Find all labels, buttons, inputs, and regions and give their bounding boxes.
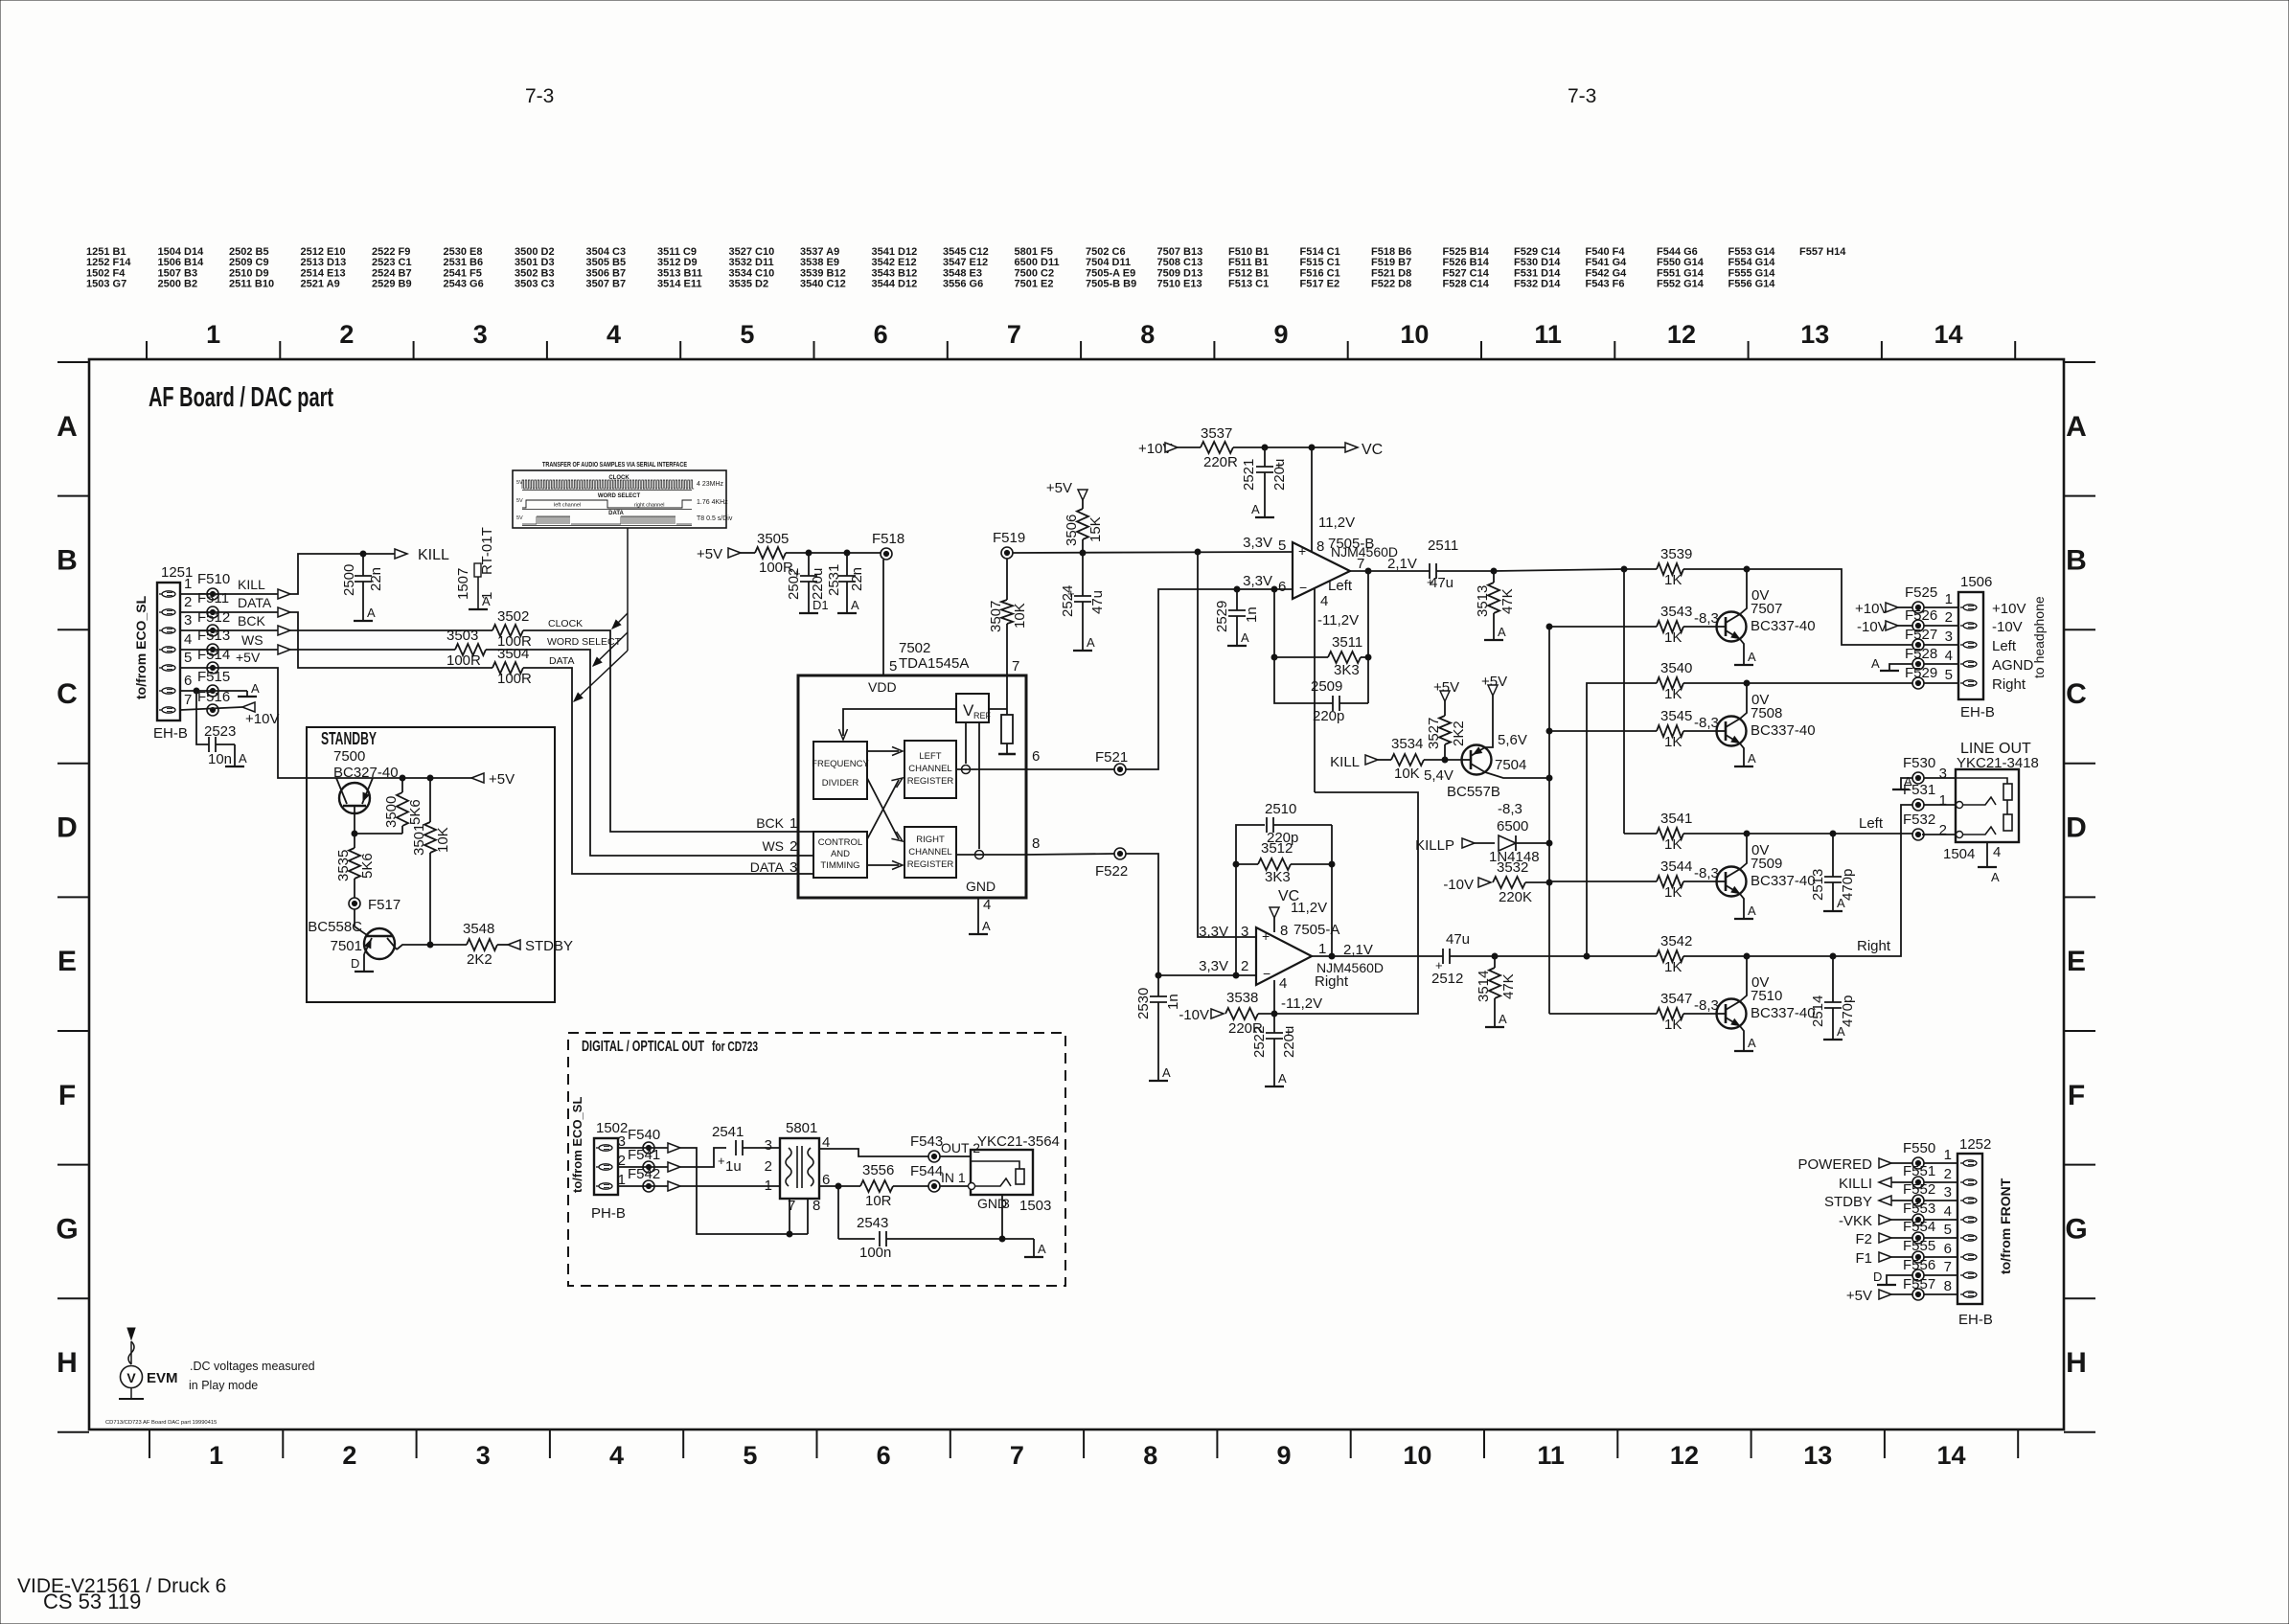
svg-text:0V: 0V: [1751, 974, 1769, 991]
svg-text:15K: 15K: [1087, 516, 1104, 542]
svg-text:3503: 3503: [446, 628, 478, 644]
svg-text:-10V: -10V: [1857, 619, 1888, 635]
resistor 3556 10R: [860, 1180, 893, 1192]
ground A under 2523: [225, 766, 244, 767]
svg-text:1K: 1K: [1664, 629, 1682, 646]
svg-text:1506: 1506: [1960, 574, 1992, 590]
wire F522 dropper to right op-amp minus: [1126, 854, 1256, 975]
svg-text:2543: 2543: [857, 1215, 888, 1231]
wire WS to WORD SELECT line: [290, 649, 455, 651]
svg-text:-8,3: -8,3: [1694, 865, 1719, 881]
pin6 left out: [956, 768, 1026, 770]
svg-text:3K3: 3K3: [1334, 662, 1360, 678]
svg-text:in Play mode: in Play mode: [189, 1379, 258, 1392]
svg-text:D: D: [57, 812, 78, 844]
svg-text:DATA: DATA: [750, 859, 785, 875]
svg-text:3512 D9: 3512 D9: [657, 257, 698, 268]
svg-text:3504: 3504: [497, 646, 529, 662]
ground D under 7501: [355, 971, 374, 972]
block FREQUENCY DIVIDER: [813, 742, 867, 799]
svg-text:3538: 3538: [1226, 990, 1258, 1006]
test point F512: [207, 625, 218, 636]
svg-text:+: +: [1262, 928, 1270, 944]
svg-text:5: 5: [740, 320, 754, 349]
svg-text:A: A: [1498, 625, 1506, 639]
svg-text:5: 5: [1278, 538, 1286, 554]
svg-text:12: 12: [1670, 1441, 1699, 1470]
svg-text:7-3: 7-3: [1568, 85, 1596, 107]
svg-text:2510 D9: 2510 D9: [229, 267, 269, 279]
svg-text:F532 D14: F532 D14: [1514, 279, 1561, 290]
top ruler: [146, 341, 148, 359]
svg-text:A: A: [57, 411, 78, 443]
svg-text:AND: AND: [831, 849, 850, 859]
svg-text:2530 E8: 2530 E8: [444, 246, 483, 258]
ground A under 7509: [1734, 918, 1753, 920]
wire DATA corner: [523, 668, 798, 874]
resistor 3505 100R: [741, 552, 755, 554]
svg-text:7-3: 7-3: [525, 85, 554, 107]
test point F511: [207, 606, 218, 618]
arrow VC: [1345, 443, 1358, 452]
svg-text:3505: 3505: [757, 531, 789, 547]
test point F555: [1912, 1251, 1924, 1263]
test point F522: [1114, 848, 1126, 859]
svg-text:6: 6: [1278, 579, 1286, 595]
svg-text:2529 B9: 2529 B9: [372, 279, 412, 290]
capacitor 2522 220u: [1273, 1014, 1275, 1033]
svg-text:to/from ECO_SL: to/from ECO_SL: [570, 1097, 584, 1193]
svg-text:4: 4: [607, 320, 621, 349]
svg-text:3537 A9: 3537 A9: [800, 246, 839, 258]
svg-text:1502 F4: 1502 F4: [86, 267, 126, 279]
wire KILL net: [290, 554, 363, 594]
svg-text:5: 5: [889, 658, 897, 675]
svg-text:TDA1545A: TDA1545A: [899, 655, 969, 672]
capacitor 2523 10n: [208, 737, 210, 752]
svg-text:BC337-40: BC337-40: [1751, 618, 1816, 634]
svg-text:CHANNEL: CHANNEL: [908, 764, 951, 774]
svg-text:F527 C14: F527 C14: [1443, 267, 1490, 279]
svg-text:2531 B6: 2531 B6: [444, 257, 484, 268]
svg-text:+10V: +10V: [245, 711, 279, 727]
connector 1502: [594, 1138, 618, 1195]
svg-text:3513: 3513: [1475, 585, 1491, 617]
wire right to headphone pin5: [1747, 682, 1912, 684]
svg-text:A: A: [1871, 656, 1880, 671]
svg-text:F510 B1: F510 B1: [1228, 246, 1269, 258]
svg-text:3500 D2: 3500 D2: [515, 246, 555, 258]
ground A under 2531: [837, 612, 857, 614]
svg-text:2500 B2: 2500 B2: [158, 279, 198, 290]
svg-text:0V: 0V: [1751, 587, 1769, 604]
svg-text:CHANNEL: CHANNEL: [908, 847, 951, 858]
svg-text:47K: 47K: [1500, 973, 1517, 999]
wire left to headphone pin3: [1747, 569, 1912, 645]
svg-text:10: 10: [1403, 1441, 1431, 1470]
svg-text:3500: 3500: [383, 796, 400, 828]
test point F527: [1912, 639, 1924, 651]
svg-text:VC: VC: [1362, 442, 1383, 458]
wire F517 to 7501 base: [354, 909, 355, 926]
resistor 3504 100R: [492, 662, 523, 674]
svg-text:F532: F532: [1903, 812, 1935, 828]
svg-text:KILLP: KILLP: [1415, 837, 1454, 854]
svg-text:3502: 3502: [497, 608, 529, 625]
svg-text:TIMMING: TIMMING: [820, 860, 859, 871]
svg-text:3,3V: 3,3V: [1243, 573, 1272, 589]
svg-text:3K3: 3K3: [1265, 869, 1291, 885]
svg-text:DATA: DATA: [549, 655, 574, 667]
svg-text:F550 G14: F550 G14: [1657, 257, 1705, 268]
test point F530: [1912, 772, 1924, 784]
pin8 right out: [956, 854, 1026, 856]
svg-text:+5V: +5V: [489, 771, 515, 788]
svg-text:F542: F542: [628, 1166, 660, 1182]
svg-text:B: B: [2066, 544, 2087, 576]
svg-text:220R: 220R: [1203, 454, 1238, 470]
wire 7507 emitter to ground: [1740, 639, 1744, 665]
svg-text:11: 11: [1537, 1441, 1565, 1470]
svg-text:F540: F540: [628, 1127, 660, 1143]
svg-text:1: 1: [1944, 1147, 1952, 1163]
svg-text:-8,3: -8,3: [1498, 801, 1522, 817]
svg-text:F519: F519: [993, 530, 1025, 546]
svg-text:3543: 3543: [1660, 604, 1692, 620]
svg-text:-10V: -10V: [1179, 1007, 1209, 1023]
svg-text:220u: 220u: [1281, 1026, 1297, 1058]
transformer 5801: [780, 1138, 819, 1199]
svg-text:F527: F527: [1905, 627, 1937, 643]
wire 7508 collector: [1740, 683, 1747, 719]
svg-text:+5V: +5V: [1046, 480, 1072, 496]
svg-text:5,4V: 5,4V: [1424, 767, 1454, 784]
svg-text:2513: 2513: [1810, 869, 1826, 901]
wire pin6 to F521: [1026, 768, 1114, 770]
resistor 3542 1K: [1657, 950, 1683, 962]
wire F540 to transformer shield: [680, 1148, 808, 1234]
svg-text:A: A: [239, 751, 247, 766]
svg-text:220K: 220K: [1499, 889, 1532, 905]
arrow STDBY: [508, 940, 520, 949]
left op output: [1350, 570, 1430, 572]
resistor 3544 1K: [1657, 876, 1683, 887]
wire plus input riser: [1198, 552, 1256, 937]
svg-text:F542 G4: F542 G4: [1586, 267, 1628, 279]
wire -11.2V rail to left op pin4: [1274, 792, 1418, 1014]
svg-text:F552 G14: F552 G14: [1657, 279, 1705, 290]
svg-text:−: −: [1299, 580, 1307, 595]
svg-text:RIGHT: RIGHT: [916, 835, 945, 845]
svg-text:+10V: +10V: [1992, 601, 2026, 617]
svg-text:3544: 3544: [1660, 858, 1692, 875]
test point F541: [643, 1161, 654, 1173]
svg-text:1: 1: [479, 592, 495, 600]
svg-text:D: D: [2066, 812, 2087, 844]
svg-text:100n: 100n: [859, 1245, 891, 1261]
svg-text:4: 4: [1945, 648, 1953, 664]
svg-text:3513 B11: 3513 B11: [657, 267, 702, 279]
svg-text:IN 1: IN 1: [941, 1170, 966, 1185]
row ticks right: [2064, 361, 2095, 363]
test point F513: [207, 644, 218, 655]
capacitor 2512 47u: [1442, 949, 1444, 964]
svg-text:2: 2: [342, 1441, 356, 1470]
svg-text:3: 3: [1002, 1196, 1010, 1211]
resistor 3511 3K3: [1328, 652, 1361, 663]
capacitor 2530 1n: [1156, 972, 1161, 978]
resistor 3507 10K: [1006, 559, 1008, 600]
pin4 network right op: [1273, 980, 1275, 1014]
jack gnd stub: [1001, 1195, 1003, 1239]
wire 7509 collector: [1740, 834, 1747, 869]
svg-text:V: V: [126, 1370, 136, 1385]
arrow freq divider to left register: [867, 750, 899, 752]
jack internals: [1956, 778, 2007, 784]
svg-text:A: A: [251, 681, 260, 696]
svg-text:4: 4: [983, 897, 991, 913]
svg-text:STDBY: STDBY: [1824, 1194, 1872, 1210]
svg-text:F552: F552: [1903, 1181, 1935, 1198]
svg-text:F544 G6: F544 G6: [1657, 246, 1698, 258]
svg-text:CONTROL: CONTROL: [818, 837, 862, 848]
svg-text:2: 2: [1241, 958, 1248, 974]
svg-text:3: 3: [790, 859, 797, 876]
svg-text:3505 B5: 3505 B5: [586, 257, 627, 268]
svg-text:OUT 2: OUT 2: [941, 1140, 980, 1155]
resistor 3543 1K: [1657, 621, 1683, 632]
IC 7502 TDA1545A box: [798, 675, 1026, 898]
svg-text:8: 8: [1032, 835, 1040, 852]
resistor 3545 1K: [1657, 725, 1683, 737]
svg-text:1.76 4KHz: 1.76 4KHz: [697, 499, 728, 506]
svg-text:3511: 3511: [1332, 634, 1362, 651]
svg-text:10K: 10K: [1394, 766, 1420, 782]
svg-text:DATA: DATA: [608, 511, 624, 516]
svg-text:1: 1: [1945, 591, 1953, 607]
svg-text:3542 E12: 3542 E12: [872, 257, 917, 268]
ground A to AGND: [1889, 664, 1912, 671]
svg-text:-8,3: -8,3: [1694, 997, 1719, 1014]
ground A pin6: [238, 696, 257, 698]
svg-text:3: 3: [476, 1441, 491, 1470]
svg-text:EH-B: EH-B: [1960, 704, 1995, 721]
wire WORD SELECT corner: [486, 650, 798, 856]
wire VREF to freq divider: [843, 709, 956, 736]
svg-text:6: 6: [1032, 748, 1040, 765]
svg-text:F553: F553: [1903, 1201, 1935, 1217]
svg-text:2502 B5: 2502 B5: [229, 246, 269, 258]
svg-text:+: +: [1298, 543, 1306, 559]
svg-text:4: 4: [184, 631, 192, 648]
svg-text:3: 3: [1939, 766, 1947, 782]
svg-text:F556: F556: [1903, 1257, 1935, 1273]
svg-text:F528: F528: [1905, 646, 1937, 662]
svg-text:14: 14: [1937, 1441, 1966, 1470]
svg-text:2509: 2509: [1311, 678, 1342, 695]
svg-text:-11,2V: -11,2V: [1317, 612, 1359, 629]
ground A under 2524: [1073, 650, 1092, 652]
svg-text:Left: Left: [1328, 578, 1353, 594]
svg-text:2529: 2529: [1214, 601, 1230, 632]
svg-text:-8,3: -8,3: [1694, 715, 1719, 731]
svg-text:KILL: KILL: [238, 577, 265, 592]
svg-text:7504 D11: 7504 D11: [1086, 257, 1131, 268]
ground A under 2521: [1255, 516, 1274, 518]
svg-text:B: B: [57, 544, 78, 576]
svg-text:F529 C14: F529 C14: [1514, 246, 1561, 258]
svg-text:3539 B12: 3539 B12: [800, 267, 846, 279]
svg-text:3556: 3556: [862, 1162, 894, 1178]
svg-text:2: 2: [1939, 822, 1947, 838]
svg-text:4: 4: [1993, 844, 2001, 860]
svg-text:2541: 2541: [712, 1124, 744, 1140]
svg-text:F515 C1: F515 C1: [1300, 257, 1340, 268]
svg-text:WS: WS: [241, 632, 263, 648]
capacitor 2524 47u: [1082, 553, 1084, 596]
svg-text:7: 7: [1010, 1441, 1024, 1470]
test point F554: [1912, 1232, 1924, 1244]
svg-text:7: 7: [1944, 1259, 1952, 1275]
svg-text:F540 F4: F540 F4: [1586, 246, 1626, 258]
svg-text:F514 C1: F514 C1: [1300, 246, 1340, 258]
svg-text:220u: 220u: [1271, 459, 1288, 491]
svg-text:A: A: [1837, 896, 1845, 910]
svg-text:D1: D1: [813, 598, 829, 612]
svg-text:22n: 22n: [368, 567, 384, 591]
svg-text:2K2: 2K2: [467, 951, 492, 968]
capacitor 2543 100n: [838, 1238, 875, 1240]
svg-text:3540: 3540: [1660, 660, 1692, 676]
svg-text:7501: 7501: [331, 938, 362, 954]
svg-text:3: 3: [473, 320, 488, 349]
wire emitter rail: [339, 777, 484, 779]
svg-text:D: D: [1873, 1269, 1882, 1284]
test point F552: [1912, 1195, 1924, 1206]
svg-text:47u: 47u: [1446, 931, 1470, 948]
svg-text:2510: 2510: [1265, 801, 1296, 817]
svg-text:F551 G14: F551 G14: [1657, 267, 1705, 279]
test point F529: [1912, 677, 1924, 689]
svg-text:BC557B: BC557B: [1447, 784, 1500, 800]
svg-text:RT-01T: RT-01T: [479, 527, 495, 575]
svg-text:F555 G14: F555 G14: [1728, 267, 1776, 279]
svg-text:4: 4: [1944, 1203, 1952, 1220]
svg-text:0V: 0V: [1751, 842, 1769, 858]
svg-text:H: H: [57, 1347, 78, 1379]
diode 6500 1N4148: [1499, 835, 1516, 851]
svg-text:F515: F515: [197, 669, 230, 685]
svg-text:F530: F530: [1903, 755, 1935, 771]
svg-text:2500: 2500: [341, 564, 357, 596]
wire output to feedback: [1365, 568, 1371, 574]
resistor 3538 220R: [1225, 1008, 1258, 1019]
svg-text:3506 B7: 3506 B7: [586, 267, 627, 279]
svg-text:2512: 2512: [1431, 971, 1463, 987]
svg-text:7504: 7504: [1495, 757, 1526, 773]
svg-text:T8 0.5 s/Div: T8 0.5 s/Div: [697, 515, 733, 522]
internal resistor on pin7: [1006, 675, 1008, 715]
svg-text:F521: F521: [1095, 749, 1128, 766]
svg-text:A: A: [1241, 630, 1249, 645]
svg-text:3503 C3: 3503 C3: [515, 279, 555, 290]
svg-text:1K: 1K: [1664, 836, 1682, 853]
svg-text:3,3V: 3,3V: [1199, 924, 1228, 940]
transistor 7510 BC337-40: [1549, 1013, 1657, 1015]
wire pin6 to 3556: [819, 1185, 860, 1187]
svg-text:3502 B3: 3502 B3: [515, 267, 555, 279]
svg-text:KILLI: KILLI: [1839, 1176, 1872, 1192]
svg-text:7: 7: [1012, 658, 1019, 675]
svg-text:3545: 3545: [1660, 708, 1692, 724]
svg-text:A: A: [851, 598, 859, 612]
svg-text:8: 8: [1143, 1441, 1157, 1470]
svg-text:C: C: [57, 678, 78, 710]
wire VREF tap to right register line: [978, 722, 980, 849]
connector 1251: [157, 583, 180, 721]
svg-text:5,6V: 5,6V: [1498, 732, 1527, 748]
svg-text:2511: 2511: [1428, 538, 1458, 554]
svg-text:2K2: 2K2: [1451, 721, 1467, 746]
svg-text:1252 F14: 1252 F14: [86, 257, 131, 268]
wire pin4 to F543: [819, 1149, 928, 1156]
test point F540: [643, 1142, 654, 1154]
svg-text:10K: 10K: [1012, 603, 1028, 629]
svg-text:F511: F511: [197, 590, 229, 606]
svg-text:F531: F531: [1903, 782, 1935, 798]
svg-text:7501 E2: 7501 E2: [1015, 279, 1054, 290]
svg-text:1: 1: [1939, 792, 1947, 809]
svg-text:1: 1: [1318, 941, 1326, 957]
wire pin7 to +10V: [180, 707, 242, 710]
svg-text:2502: 2502: [786, 568, 802, 600]
svg-text:1K: 1K: [1664, 1017, 1682, 1033]
svg-text:F557: F557: [1903, 1276, 1935, 1292]
resistor 3537 220R: [1178, 446, 1201, 448]
svg-text:1: 1: [790, 815, 797, 832]
svg-text:to/from ECO_SL: to/from ECO_SL: [133, 595, 149, 699]
svg-text:2514 E13: 2514 E13: [301, 267, 346, 279]
svg-text:F554: F554: [1903, 1219, 1935, 1235]
wire F521 riser to left op-amp minus: [1126, 589, 1293, 769]
svg-text:1K: 1K: [1664, 884, 1682, 901]
ground A under pin4: [969, 933, 988, 935]
resistor 3532 220K: [1493, 877, 1525, 888]
svg-text:3542: 3542: [1660, 933, 1692, 949]
svg-text:47u: 47u: [1089, 590, 1106, 614]
svg-text:F511 B1: F511 B1: [1228, 257, 1269, 268]
svg-text:5: 5: [743, 1441, 757, 1470]
svg-text:6: 6: [1944, 1241, 1952, 1257]
svg-text:right channel: right channel: [634, 503, 665, 509]
test point F515: [207, 685, 218, 697]
svg-text:F517: F517: [368, 897, 401, 913]
wire 7504 collector to bus: [1485, 772, 1549, 778]
transformer pin stubs: [789, 1199, 790, 1234]
wire 7508 emitter to ground: [1740, 743, 1744, 766]
resistor 3535 5K6: [354, 834, 355, 848]
transistor 7500 BC327-40: [339, 783, 370, 813]
wire F518 to VDD pin 5: [882, 560, 884, 675]
svg-text:3548 E3: 3548 E3: [943, 267, 982, 279]
ground A under 2530: [1149, 1080, 1168, 1082]
svg-text:REF: REF: [973, 711, 992, 721]
svg-text:STANDBY: STANDBY: [321, 729, 377, 748]
svg-text:10R: 10R: [865, 1193, 892, 1209]
svg-text:2: 2: [765, 1158, 772, 1175]
left signal bus vertical: [1623, 569, 1625, 834]
wire 7507 collector: [1740, 569, 1747, 614]
